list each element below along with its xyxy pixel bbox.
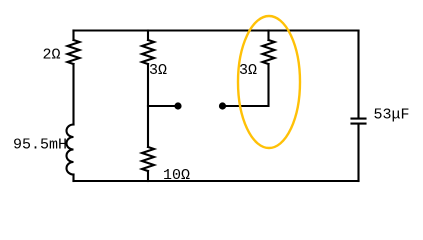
svg-text:53μF: 53μF (374, 107, 410, 124)
wire stub to left terminal (148, 105, 177, 107)
wire branch2 bottom lead (147, 171, 149, 181)
wire right branch bottom lead (357, 124, 359, 181)
capacitor C 53uF plate top (352, 118, 366, 120)
wire right branch top lead (357, 31, 359, 118)
svg-text:2Ω: 2Ω (43, 47, 61, 64)
capacitor C 53uF plate bottom (352, 123, 366, 125)
wire branch3 top lead (267, 31, 269, 41)
wire left branch top lead (72, 31, 74, 41)
wire branch2 middle (147, 64, 149, 147)
wire left branch bottom lead (72, 175, 74, 182)
svg-text:3Ω: 3Ω (239, 62, 257, 79)
resistor R 3ohm right (263, 40, 275, 64)
wire branch2 top lead (147, 31, 149, 41)
resistor R 3ohm left (142, 40, 154, 64)
resistor R 2ohm (68, 40, 80, 64)
node terminal right (219, 102, 226, 109)
resistor R 10ohm (142, 147, 154, 171)
wire bottom (74, 180, 359, 182)
svg-text:10Ω: 10Ω (163, 167, 190, 184)
inductor L 95.5mH (67, 125, 74, 175)
highlight ellipse (238, 16, 300, 148)
svg-text:95.5mH: 95.5mH (13, 136, 67, 153)
node terminal left (174, 102, 181, 109)
wire top (74, 29, 359, 31)
wire left branch middle (72, 64, 74, 125)
wire right terminal to branch3 (223, 64, 269, 106)
svg-text:3Ω: 3Ω (149, 62, 167, 79)
